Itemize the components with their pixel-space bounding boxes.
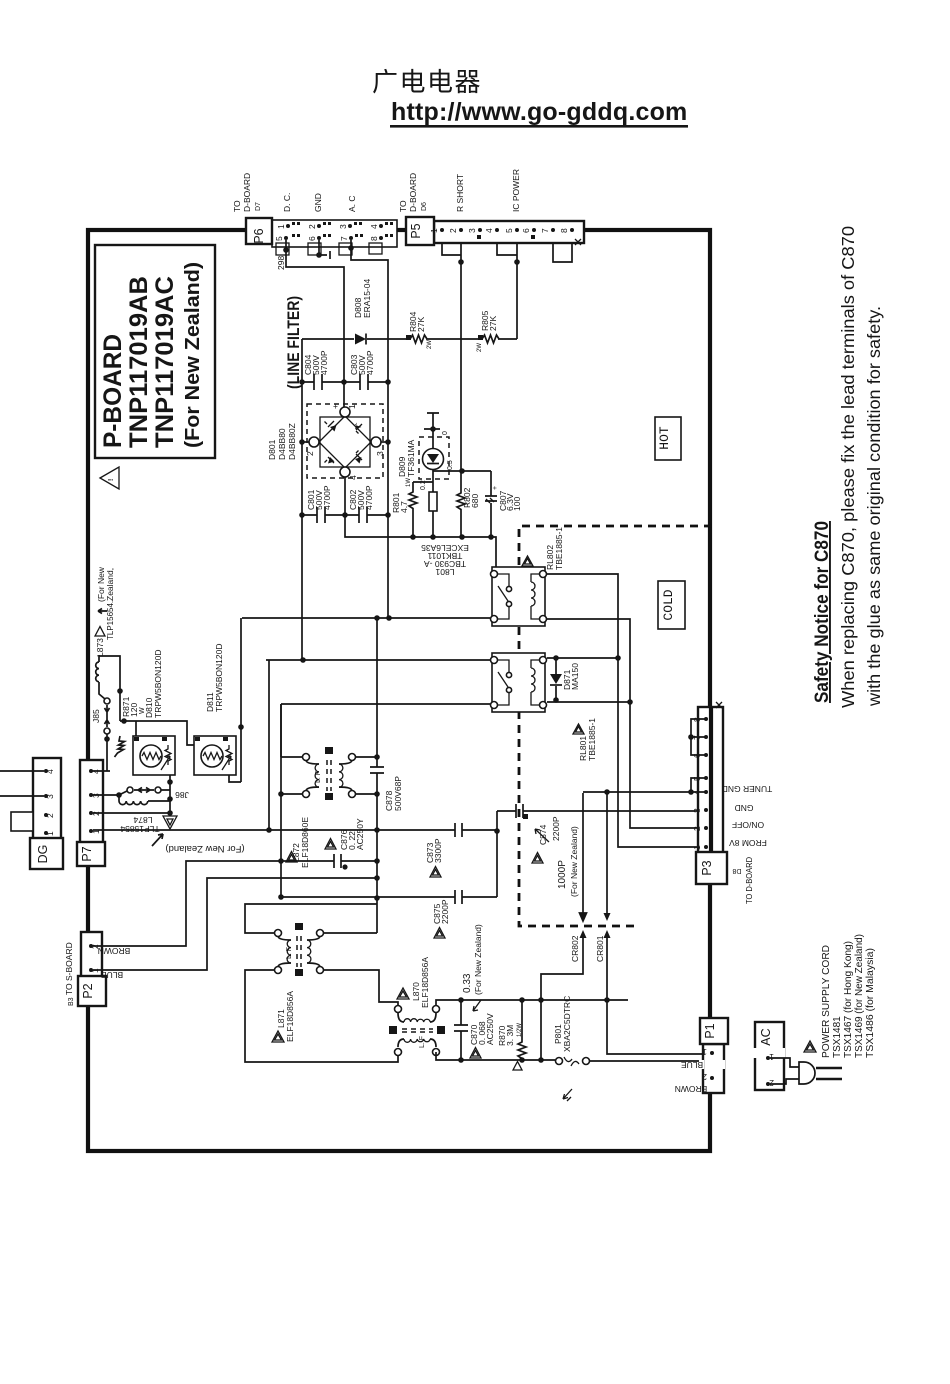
- svg-text:ON/OFF: ON/OFF: [732, 820, 764, 830]
- L801 line filter label (upside down): [421, 543, 469, 577]
- hot rail y=339: [302, 338, 517, 340]
- J85 bottom wire: [91, 734, 110, 771]
- svg-text:298: 298: [276, 256, 286, 270]
- svg-text:DG: DG: [36, 845, 50, 864]
- svg-text:!: !: [108, 479, 115, 481]
- svg-text:TO S-BOARD: TO S-BOARD: [64, 942, 74, 995]
- capacitor C807: [485, 471, 522, 537]
- P6 column labels D.C. GND A.C: [282, 193, 357, 212]
- wire L871 bottom loop: [245, 970, 398, 1062]
- svg-text:D8: D8: [732, 867, 741, 874]
- svg-text:L. F: L. F: [315, 771, 322, 783]
- P6 pin 8: [369, 234, 393, 241]
- svg-text:TUNER GND: TUNER GND: [722, 784, 773, 794]
- P6 pin 2: [307, 222, 331, 229]
- svg-text:http://www.go-gddq.com: http://www.go-gddq.com: [391, 98, 687, 126]
- P2 labels: [64, 942, 130, 1006]
- hot/cold dashed boundary: [519, 526, 712, 926]
- connector P7: [77, 760, 105, 866]
- svg-text:TSX1481: TSX1481: [832, 1016, 843, 1058]
- svg-text:ELF18D856A: ELF18D856A: [285, 991, 295, 1042]
- RL802 label: [522, 527, 564, 570]
- resistor R871: [115, 696, 147, 757]
- capacitor C803: [344, 350, 388, 390]
- wire relay row y=660: [266, 659, 490, 661]
- svg-text:J86: J86: [175, 790, 189, 800]
- P801 rail: [436, 1052, 555, 1060]
- svg-text:1: 1: [276, 224, 286, 229]
- wire x281 riser: [280, 704, 282, 897]
- svg-text:4.7: 4.7: [399, 501, 409, 513]
- RL801 label: [573, 718, 597, 761]
- P5 pin1-2 bracket wire: [442, 243, 461, 471]
- svg-text:R SHORT: R SHORT: [455, 174, 465, 212]
- svg-text:P5: P5: [409, 223, 423, 238]
- svg-text:100: 100: [512, 497, 522, 511]
- svg-text:7: 7: [339, 236, 349, 241]
- wire P2 blue: [93, 878, 377, 970]
- svg-text:P2: P2: [81, 983, 95, 998]
- capacitor C876: [278, 818, 377, 870]
- relay RL802: [491, 567, 547, 626]
- inductor L873: [96, 655, 105, 699]
- svg-text:J85: J85: [91, 709, 101, 723]
- wire x269 pin1 riser: [268, 660, 270, 830]
- svg-text:4700P: 4700P: [319, 350, 329, 375]
- inductor J86 alt coil: [119, 795, 170, 805]
- svg-text:BLUE: BLUE: [101, 970, 124, 980]
- D809 top frame stub: [424, 413, 440, 448]
- svg-text:TBE1885-1: TBE1885-1: [554, 527, 564, 570]
- wire P3 pin4 row y=792: [583, 791, 691, 793]
- resistor R870: [497, 1000, 526, 1070]
- P-BOARD title box: [95, 245, 215, 458]
- svg-text:4700P: 4700P: [365, 350, 375, 375]
- svg-text:1: 1: [45, 831, 55, 836]
- svg-text:Safety Notice for C870: Safety Notice for C870: [812, 521, 833, 703]
- svg-text:4: 4: [369, 224, 379, 229]
- wire L873 top branch: [99, 656, 120, 721]
- svg-text:2W: 2W: [477, 343, 483, 352]
- thermal protector P801: [553, 996, 710, 1101]
- svg-text:2200P: 2200P: [551, 816, 561, 841]
- svg-text:TSX1469 (for New Zealand): TSX1469 (for New Zealand): [854, 934, 865, 1058]
- svg-text:TO D-BOARD: TO D-BOARD: [744, 857, 754, 904]
- svg-text:27K: 27K: [488, 316, 498, 331]
- wire L872 right stubs to C878: [356, 757, 377, 794]
- main board border: [88, 230, 710, 1151]
- capacitor C873: [379, 823, 497, 877]
- wire D811 right riser to relay row: [229, 618, 241, 782]
- L872 label: [286, 817, 310, 868]
- svg-text:3: 3: [45, 794, 55, 799]
- resistor R802: [457, 471, 480, 537]
- svg-text:Zealand,: Zealand,: [105, 568, 115, 601]
- svg-text:BROWN: BROWN: [675, 1084, 708, 1094]
- P3 pin 8-7-6 bracket: [691, 719, 706, 755]
- wire x377 lower segment: [324, 830, 377, 933]
- bridge rectifier D801: [267, 404, 385, 480]
- svg-text:2: 2: [702, 1072, 707, 1082]
- svg-text:1: 1: [429, 228, 439, 233]
- connector DG: [30, 758, 63, 869]
- wire RL802 right to P3 pin1: [547, 574, 704, 847]
- line filter transformer L872: [303, 747, 356, 800]
- capacitor C801: [306, 485, 332, 523]
- svg-text:TRPW5BON120D: TRPW5BON120D: [214, 644, 224, 713]
- svg-text:2: 2: [307, 224, 317, 229]
- svg-text:3300P: 3300P: [433, 838, 443, 863]
- capacitor C802: [348, 485, 374, 523]
- P6 pin 7: [339, 234, 363, 241]
- svg-text:2: 2: [448, 228, 458, 233]
- P6 label TO D-BOARD D7: [232, 173, 262, 212]
- svg-text:TBE1885-1: TBE1885-1: [587, 718, 597, 761]
- svg-text:D-BOARD: D-BOARD: [408, 173, 418, 212]
- svg-text:广电电器: 广电电器: [372, 67, 482, 97]
- P6 pin 3: [338, 222, 362, 229]
- svg-text:B3: B3: [68, 997, 75, 1006]
- DG pin2 key box: [11, 812, 33, 831]
- wire RL802 bottom right to P3 pin2: [547, 619, 704, 828]
- P3 signal labels: [722, 784, 773, 904]
- svg-text:D. C.: D. C.: [282, 193, 292, 212]
- diode D871: [550, 658, 580, 700]
- wire P7 pin1 long row: [93, 829, 379, 831]
- svg-text:BLUE: BLUE: [681, 1060, 704, 1070]
- safety notice for C870: [812, 226, 884, 708]
- svg-text:+: +: [330, 404, 340, 409]
- P5 pin4-5 bracket wire: [497, 243, 517, 339]
- AC warning triangle: [804, 1041, 816, 1052]
- jumper J85: [91, 698, 110, 734]
- capacitor C874: [497, 804, 704, 897]
- svg-text:8: 8: [559, 228, 569, 233]
- wire L871 top loop: [245, 904, 377, 933]
- AC plug: [770, 1058, 842, 1084]
- wire relay row y=704: [281, 703, 490, 705]
- svg-text:TNP117019AC: TNP117019AC: [151, 276, 179, 448]
- CR801 arrows: [595, 792, 711, 1054]
- svg-text:P3: P3: [700, 860, 714, 875]
- resistor R801: [391, 478, 417, 537]
- svg-text:2: 2: [692, 826, 702, 831]
- svg-text:5: 5: [274, 236, 284, 241]
- svg-text:D4BB80Z: D4BB80Z: [287, 423, 297, 460]
- svg-text:2W: 2W: [427, 340, 433, 349]
- posistor rail y=721: [120, 721, 194, 745]
- svg-text:2: 2: [45, 813, 55, 818]
- D809 bottom links: [413, 470, 491, 537]
- svg-text:BROWN: BROWN: [98, 946, 131, 956]
- svg-text:P6: P6: [252, 228, 266, 243]
- svg-text:3: 3: [692, 808, 702, 813]
- CR802 arrows: [541, 793, 587, 1060]
- svg-text:POWER SUPPLY CORD: POWER SUPPLY CORD: [821, 945, 832, 1058]
- svg-text:(For New Zealand): (For New Zealand): [473, 924, 483, 995]
- wire RL801 right y=658: [547, 657, 618, 659]
- svg-text:D4BB80: D4BB80: [277, 428, 287, 460]
- connector P5: [406, 217, 584, 245]
- wire RL801 bottom right y=702: [547, 701, 630, 703]
- svg-text:TO: TO: [232, 200, 242, 212]
- P5 label TO D-BOARD D6: [398, 173, 428, 212]
- wire CR802 bottom to rail: [538, 1057, 544, 1063]
- svg-text:120: 120: [129, 703, 139, 717]
- svg-text:AC250V: AC250V: [485, 1013, 495, 1045]
- svg-text:3: 3: [467, 228, 477, 233]
- svg-text:L874: L874: [133, 815, 152, 825]
- P6 pin 1: [276, 222, 300, 229]
- P5 pins 1-8: [429, 228, 574, 239]
- P6 pin 5: [274, 234, 300, 241]
- AC inlet connector: [753, 1022, 785, 1090]
- capacitor C875: [278, 890, 497, 938]
- connector P6: [246, 218, 397, 247]
- wire bridge bottom: [344, 477, 346, 515]
- 0.33 New Zealand note: [462, 924, 483, 1011]
- svg-text:(For New Zealand): (For New Zealand): [182, 262, 204, 448]
- relay RL801: [491, 653, 547, 712]
- P6 pin 4: [369, 222, 393, 229]
- wire bridge left to x302: [302, 441, 309, 443]
- svg-text:4: 4: [45, 769, 55, 774]
- wire P6 pin6 gnd stub: [319, 240, 330, 259]
- svg-text:D7: D7: [255, 202, 262, 211]
- svg-text:AC250Y: AC250Y: [355, 818, 365, 850]
- svg-text:IC POWER: IC POWER: [511, 169, 521, 212]
- jumper J86: [91, 787, 189, 800]
- svg-text:4: 4: [484, 228, 494, 233]
- svg-text:6: 6: [307, 236, 317, 241]
- svg-text:1: 1: [692, 845, 702, 850]
- svg-text:TRPW5BON120D: TRPW5BON120D: [153, 650, 163, 719]
- svg-text:3: 3: [375, 451, 385, 456]
- svg-text:XBA2C5DTRC: XBA2C5DTRC: [562, 996, 572, 1052]
- wire x388 down to relay row: [387, 515, 389, 618]
- svg-text:8: 8: [369, 236, 379, 241]
- wire D810 right column: [169, 775, 171, 813]
- svg-text:3: 3: [338, 224, 348, 229]
- svg-text:P1: P1: [703, 1023, 717, 1038]
- wire P6 pin7 down: [351, 240, 388, 515]
- svg-text:A. C: A. C: [347, 195, 357, 212]
- L870 label: [397, 957, 430, 1008]
- line filter transformer L870: [389, 1006, 445, 1056]
- svg-text:0.33: 0.33: [462, 973, 473, 993]
- wire P2 brown: [93, 861, 281, 946]
- L871 label: [272, 991, 295, 1042]
- svg-text:(LINE FILTER): (LINE FILTER): [284, 296, 303, 389]
- svg-text:AC: AC: [759, 1028, 773, 1045]
- wire L870 top right rail: [436, 1000, 628, 1006]
- svg-text:4700P: 4700P: [322, 485, 332, 510]
- svg-text:TO: TO: [398, 200, 408, 212]
- svg-text:6: 6: [521, 228, 531, 233]
- svg-text:GND: GND: [313, 193, 323, 212]
- svg-text:1: 1: [702, 1047, 707, 1057]
- svg-text:L801: L801: [435, 567, 454, 577]
- posistor D811: [194, 644, 236, 776]
- svg-text:1: 1: [769, 1052, 774, 1062]
- svg-text:2: 2: [305, 451, 315, 456]
- svg-text:(For New Zealand): (For New Zealand): [165, 843, 244, 854]
- x mark: [575, 239, 581, 245]
- P1 wire labels: [675, 1060, 708, 1094]
- svg-text:CR802: CR802: [570, 935, 580, 962]
- capacitor C870: [454, 1000, 495, 1060]
- wire D810 stub: [135, 721, 137, 736]
- svg-text:TSX1486 (for Malaysia): TSX1486 (for Malaysia): [865, 948, 876, 1058]
- svg-text:2: 2: [769, 1078, 774, 1088]
- wire L871 bottom right to L870: [324, 970, 398, 1006]
- x mark P3: [716, 702, 722, 708]
- resistor R804: [406, 311, 433, 349]
- svg-text:0.5: 0.5: [447, 460, 454, 470]
- svg-text:D6: D6: [421, 202, 428, 211]
- posistor D810: [133, 650, 175, 776]
- wire x497: [496, 811, 498, 897]
- P6 keying sub-boxes: [276, 243, 382, 255]
- svg-text:4700P: 4700P: [364, 485, 374, 510]
- wire bottom rail y=537: [345, 515, 496, 574]
- svg-text:TSX1467 (for Hong Kong): TSX1467 (for Hong Kong): [843, 941, 854, 1058]
- fusible resistor under D809: [429, 492, 437, 511]
- svg-text:with the glue as same original: with the glue as same original condition…: [864, 306, 884, 707]
- P6 pin 6: [307, 234, 331, 241]
- svg-text:1W: 1W: [406, 478, 412, 487]
- svg-text:P-BOARD: P-BOARD: [99, 334, 127, 448]
- svg-text:TLP15654.: TLP15654.: [106, 601, 115, 640]
- svg-text:ELF18D856A: ELF18D856A: [420, 957, 430, 1008]
- svg-text:L. F: L. F: [286, 947, 293, 959]
- svg-text:2200P: 2200P: [440, 899, 450, 924]
- capacitor C878: [370, 618, 403, 830]
- wire left branch x=302: [301, 339, 303, 660]
- L874 triangle: [120, 815, 177, 834]
- svg-text:ERA15-04: ERA15-04: [362, 279, 372, 318]
- svg-text:TLP15854: TLP15854: [120, 824, 159, 834]
- diode D809: [397, 431, 454, 490]
- svg-text:L. F: L. F: [419, 1036, 426, 1048]
- svg-text:L873: L873: [95, 638, 105, 657]
- svg-text:TF361MA: TF361MA: [406, 439, 416, 477]
- svg-text:27K: 27K: [416, 317, 426, 332]
- HOT label: [655, 417, 681, 460]
- svg-text:GND: GND: [735, 803, 754, 813]
- svg-text:4: 4: [348, 475, 358, 480]
- wire bridge right to x388: [381, 441, 388, 443]
- svg-text:HOT: HOT: [657, 426, 672, 450]
- For New Zealand note: [152, 834, 245, 854]
- wire relay row y=618: [242, 617, 490, 619]
- svg-text:C874: C874: [538, 824, 548, 845]
- L873 labels: [95, 566, 115, 657]
- resistor R805: [477, 310, 499, 352]
- svg-text:1: 1: [347, 404, 357, 409]
- wire P6 pin5 to bridge top: [286, 240, 344, 409]
- P5 pin7-8 bracket wire: [553, 243, 572, 262]
- wire L872 left stubs: [281, 757, 302, 794]
- line filter transformer L871: [275, 923, 324, 976]
- warning triangle: [100, 467, 119, 489]
- svg-text:500V68P: 500V68P: [393, 776, 403, 811]
- svg-text:(For New Zealand): (For New Zealand): [569, 826, 579, 897]
- connector P3: [692, 707, 727, 884]
- svg-text:0: 0: [442, 431, 449, 435]
- power supply cord text: [821, 934, 876, 1058]
- diode D808: [353, 279, 372, 345]
- svg-text:COLD: COLD: [661, 589, 676, 620]
- svg-text:3. 3M: 3. 3M: [505, 1025, 515, 1046]
- svg-text:1/2W: 1/2W: [517, 1023, 523, 1037]
- svg-text:D801: D801: [267, 439, 277, 460]
- wire P7 pin2 row: [93, 812, 170, 814]
- svg-text:CR801: CR801: [595, 935, 605, 962]
- svg-text:D-BOARD: D-BOARD: [242, 173, 252, 212]
- svg-text:680: 680: [470, 494, 480, 508]
- P3 pin 5-4 bracket: [691, 778, 706, 792]
- svg-text:When replacing C870, please fi: When replacing C870, please fix the lead…: [838, 226, 858, 708]
- connector P2: [78, 932, 106, 1006]
- svg-text:TNP117019AB: TNP117019AB: [125, 276, 153, 448]
- svg-text:5: 5: [504, 228, 514, 233]
- P5 signal labels: [455, 169, 521, 212]
- connector P1: [699, 1018, 728, 1093]
- svg-text:P7: P7: [80, 846, 94, 861]
- capacitor C804: [302, 350, 344, 390]
- svg-text:+: +: [492, 486, 499, 490]
- svg-text:MA150: MA150: [570, 663, 580, 690]
- svg-text:1000P: 1000P: [557, 860, 568, 889]
- svg-text:FROM 8V: FROM 8V: [729, 838, 767, 848]
- svg-text:7: 7: [540, 228, 550, 233]
- COLD label: [658, 581, 685, 629]
- cold rail y=515: [302, 514, 388, 516]
- DG wires off page: [0, 771, 44, 796]
